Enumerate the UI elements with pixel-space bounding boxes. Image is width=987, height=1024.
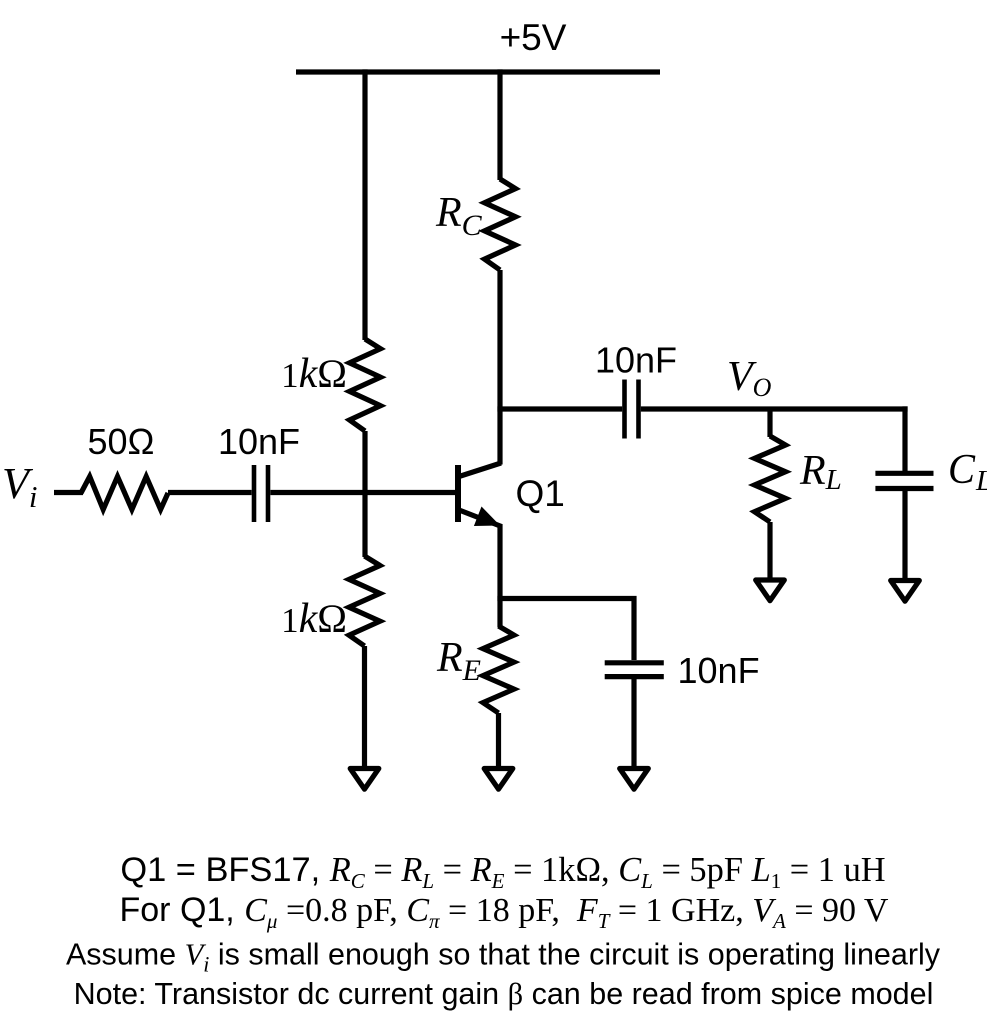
capacitor CL [875,471,933,476]
capacitor C3 10nF emitter bypass [605,660,664,665]
wire Vo node to CL [902,406,907,471]
wire CL to ground [902,491,907,581]
wire collector node to output cap [497,406,622,411]
svg-text:1kΩ: 1kΩ [281,351,347,397]
wire C2 to Vo node [641,406,908,411]
svg-text:Vi: Vi [2,459,38,514]
resistor RE [483,626,514,713]
wire C3 to ground [631,679,636,768]
ground (bias divider) [350,769,379,790]
resistor R2 1k ohm (lower bias) [349,556,380,646]
ground (CL) [891,581,920,602]
ground (RE) [484,769,513,790]
svg-text:10nF: 10nF [678,650,760,691]
transistor Q1 base bar [455,465,461,522]
wire 50 ohm to C1 [168,490,252,495]
resistor RC [485,179,516,270]
wire emitter to RE [497,524,502,627]
svg-text:Q1 = BFS17, RC = RL = RE = 1kΩ: Q1 = BFS17, RC = RL = RE = 1kΩ, CL = 5pF… [120,851,885,893]
svg-text:Q1: Q1 [516,473,565,514]
svg-text:L: L [975,465,987,497]
wire RL to ground [767,522,772,580]
wire rail to R1 [362,69,367,340]
svg-text:RC: RC [435,190,483,242]
wire Vi to 50 ohm [54,490,83,495]
transistor Q1 emitter arrow [474,507,500,527]
wire rail to RC [497,69,502,180]
resistor 50 ohm source [81,477,168,510]
svg-text:Note: Transistor dc current ga: Note: Transistor dc current gain β can b… [74,977,934,1011]
wire RC to collector [497,270,502,465]
transistor Q1 emitter diagonal [459,510,502,527]
ground (RL) [756,580,785,601]
capacitor C1 10nF input coupling [252,465,257,522]
svg-text:VO: VO [727,354,772,402]
svg-text:1kΩ: 1kΩ [281,596,347,642]
resistor R1 1k ohm (upper bias) [350,339,381,431]
svg-text:RL: RL [799,448,842,496]
wire Vo node to RL [767,409,772,437]
svg-text:50Ω: 50Ω [88,421,155,462]
ground (bypass cap) [620,769,649,790]
resistor RL [755,436,786,522]
svg-text:+5V: +5V [500,17,567,58]
wire RE to ground [496,713,501,768]
transistor Q1 collector diagonal [459,463,501,477]
svg-text:C: C [948,447,976,493]
svg-text:RE: RE [436,635,481,687]
wire C1 to base [270,490,455,495]
wire emitter node to bypass cap [497,599,634,661]
svg-text:Assume Vi is small enough so t: Assume Vi is small enough so that the ci… [66,938,941,977]
svg-text:10nF: 10nF [595,340,677,381]
wire R2 to ground [362,646,367,768]
capacitor C2 10nF output coupling [622,380,627,439]
svg-text:For Q1, Cμ =0.8 pF, Cπ = 18 pF: For Q1, Cμ =0.8 pF, Cπ = 18 pF, FT = 1 G… [120,891,889,933]
svg-text:10nF: 10nF [218,421,300,462]
wire +5V rail [296,69,660,74]
wire R1 to base node [362,431,367,557]
